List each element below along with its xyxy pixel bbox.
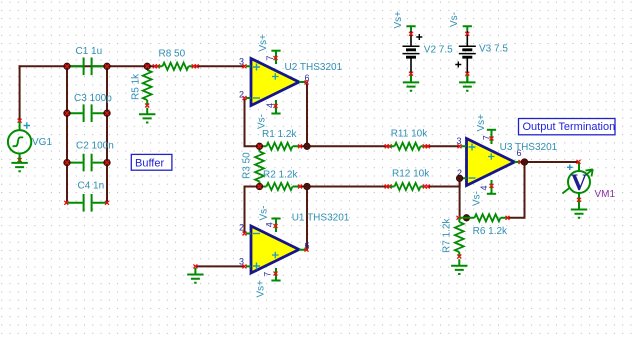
svg-text:3: 3 bbox=[239, 57, 244, 67]
wire R2 right to R12 left bbox=[300, 186, 388, 188]
wire U2 pin2 to R1 left bbox=[245, 98, 260, 146]
VG1 plus sign bbox=[24, 122, 30, 128]
ground below R5 bbox=[139, 108, 155, 123]
capacitor C1 bbox=[67, 58, 107, 76]
svg-text:Vs-: Vs- bbox=[259, 206, 270, 221]
wire R6 right up to output node bbox=[508, 162, 525, 218]
svg-text:VM1: VM1 bbox=[595, 189, 616, 200]
svg-text:Vs-: Vs- bbox=[449, 12, 460, 27]
wire R8 to U2 pin3 bbox=[196, 65, 245, 67]
svg-text:R6 1.2k: R6 1.2k bbox=[473, 226, 508, 237]
junction node R2 left bbox=[256, 183, 263, 190]
svg-text:Vs+: Vs+ bbox=[258, 34, 269, 52]
svg-text:Vs+: Vs+ bbox=[393, 11, 404, 29]
wire U1 output up to node bbox=[306, 187, 308, 250]
resistor R5 bbox=[143, 66, 152, 107]
wire top rail VG1 to R8 bbox=[20, 65, 156, 67]
junction node R1 left bbox=[256, 143, 263, 150]
wire capacitor ladder left vertical bbox=[66, 66, 68, 203]
ground below R7 bbox=[451, 259, 467, 274]
svg-text:Buffer: Buffer bbox=[135, 158, 164, 170]
resistor R1 bbox=[260, 143, 303, 150]
junction node U3 pin2 bbox=[456, 175, 463, 182]
wire R1 right to R11 left bbox=[300, 145, 388, 147]
svg-text:C2 100n: C2 100n bbox=[76, 141, 114, 152]
svg-text:2: 2 bbox=[239, 223, 244, 233]
junction node R5 top bbox=[144, 63, 151, 70]
svg-text:Output Termination: Output Termination bbox=[523, 121, 616, 133]
svg-text:VG1: VG1 bbox=[32, 137, 52, 148]
svg-text:4: 4 bbox=[479, 185, 489, 190]
svg-text:R11 10k: R11 10k bbox=[391, 129, 429, 140]
resistor R8 bbox=[153, 63, 199, 70]
text box Output Termination bbox=[519, 119, 616, 135]
ground below V2 bbox=[403, 76, 419, 91]
svg-text:Vs-: Vs- bbox=[257, 114, 268, 129]
svg-text:R12 10k: R12 10k bbox=[392, 169, 430, 180]
svg-text:U1 THS3201: U1 THS3201 bbox=[292, 213, 350, 224]
svg-text:3: 3 bbox=[457, 136, 462, 146]
svg-text:V2 7.5: V2 7.5 bbox=[424, 45, 453, 56]
svg-text:R7 1.2k: R7 1.2k bbox=[442, 218, 453, 253]
voltage source VG1 bbox=[8, 119, 31, 162]
capacitor C4 bbox=[64, 194, 109, 212]
junction node R2 right U1 out bbox=[304, 183, 311, 190]
wire capacitor ladder right vertical bbox=[106, 66, 108, 203]
battery V3 bbox=[459, 26, 476, 82]
wire VG1 top vertical bbox=[19, 66, 21, 120]
op-amp U1 bbox=[243, 219, 309, 281]
wire U3 pin2 node down to R6 R7 node bbox=[459, 178, 461, 218]
ground below VG1 bbox=[11, 156, 27, 171]
junction node output bbox=[521, 159, 528, 166]
wire U3 output to VM1 bbox=[521, 161, 579, 163]
svg-text:Vs+: Vs+ bbox=[256, 280, 267, 298]
svg-text:C3 100p: C3 100p bbox=[74, 93, 112, 104]
resistor R3 bbox=[255, 146, 264, 186]
ground below VM1 bbox=[571, 203, 587, 218]
svg-text:V3 7.5: V3 7.5 bbox=[479, 44, 508, 55]
svg-text:C1 1u: C1 1u bbox=[76, 46, 103, 57]
junction node C2 left bbox=[64, 159, 71, 166]
wire R11 right to U3 pin3 bbox=[427, 145, 460, 147]
svg-text:C4 1n: C4 1n bbox=[78, 181, 105, 192]
wire U1 pin3 to ground bbox=[195, 265, 244, 267]
wire R2 left to U1 pin2 bbox=[245, 187, 260, 234]
op-amp U3 bbox=[458, 130, 523, 194]
svg-text:7: 7 bbox=[262, 272, 272, 277]
resistor R7 bbox=[455, 218, 464, 259]
svg-text:2: 2 bbox=[239, 90, 244, 100]
battery V2 bbox=[403, 26, 420, 82]
svg-text:Vs+: Vs+ bbox=[476, 114, 487, 132]
resistor R11 bbox=[385, 143, 430, 150]
svg-text:7: 7 bbox=[265, 55, 275, 60]
svg-text:6: 6 bbox=[305, 73, 310, 83]
op-amp U2 bbox=[243, 51, 309, 114]
svg-text:6: 6 bbox=[305, 241, 310, 251]
resistor R6 bbox=[457, 214, 510, 221]
junction node C2 right bbox=[104, 159, 111, 166]
svg-text:V: V bbox=[571, 170, 588, 195]
svg-text:4: 4 bbox=[265, 222, 275, 227]
svg-text:U3 THS3201: U3 THS3201 bbox=[500, 142, 558, 153]
wire U2 output down to node bbox=[306, 83, 308, 147]
resistor R2 bbox=[260, 183, 303, 190]
capacitor C2 bbox=[67, 154, 107, 172]
svg-text:6: 6 bbox=[517, 148, 522, 158]
svg-text:U2 THS3201: U2 THS3201 bbox=[285, 62, 343, 73]
wire R12 right to U3 pin2 bbox=[428, 178, 460, 186]
junction node R6 left bbox=[463, 215, 470, 222]
svg-text:R5 1k: R5 1k bbox=[130, 73, 141, 100]
junction node C3 left bbox=[64, 110, 71, 117]
resistor R12 bbox=[385, 183, 430, 190]
V2 plus sign bbox=[416, 34, 422, 40]
svg-text:R1 1.2k: R1 1.2k bbox=[262, 129, 297, 140]
svg-text:R3 50: R3 50 bbox=[242, 152, 253, 179]
svg-text:Vs-: Vs- bbox=[472, 191, 483, 206]
ground below V3 bbox=[459, 76, 475, 91]
svg-text:3: 3 bbox=[239, 257, 244, 267]
junction node C3 right bbox=[104, 110, 111, 117]
ground at U1 pin3 bbox=[187, 264, 203, 282]
voltmeter VM1 bbox=[562, 160, 592, 207]
junction node C1 left bbox=[64, 63, 71, 70]
capacitor C3 bbox=[67, 104, 107, 122]
text box Buffer bbox=[131, 154, 172, 170]
junction node C1 right bbox=[104, 63, 111, 70]
svg-text:R8 50: R8 50 bbox=[159, 49, 186, 60]
V3 plus sign bbox=[455, 62, 461, 68]
svg-text:7: 7 bbox=[481, 135, 491, 140]
svg-text:4: 4 bbox=[265, 103, 275, 108]
svg-text:R2 1.2k: R2 1.2k bbox=[263, 169, 298, 180]
junction node R1 right U2 out bbox=[304, 143, 311, 150]
